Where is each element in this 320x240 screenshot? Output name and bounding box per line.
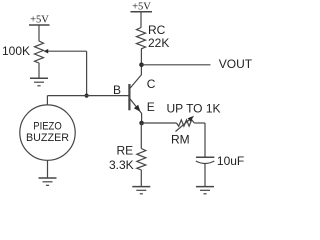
svg-text:100K: 100K (2, 44, 30, 58)
node base junction dot (85, 94, 89, 98)
svg-text:RE: RE (117, 144, 134, 158)
wire wiper to base rail (86, 51, 88, 95)
svg-text:+5V: +5V (30, 15, 49, 26)
wire RE to ground (140, 170, 142, 187)
resistor RC body (137, 28, 146, 49)
pot wiper arrow (44, 49, 87, 54)
ground under buzzer (39, 178, 57, 185)
wire RM to cap corner (194, 122, 205, 124)
svg-text:VOUT: VOUT (219, 57, 253, 71)
svg-text:RM: RM (171, 132, 190, 146)
svg-text:C: C (147, 77, 156, 91)
wire emitter rail to RM (142, 122, 177, 124)
transistor Q1 (129, 74, 141, 113)
wire RC to collector, through VOUT node (140, 49, 142, 75)
wire P1 to R1 (38, 25, 40, 41)
svg-text:22K: 22K (148, 36, 169, 50)
node emitter junction dot (139, 121, 144, 126)
wire P2 to RC (140, 12, 142, 28)
wire down to capacitor (204, 123, 206, 157)
node VOUT junction dot (139, 63, 144, 68)
svg-text:E: E (147, 100, 155, 114)
svg-text:UP TO 1K: UP TO 1K (167, 102, 221, 116)
wire R1 to ground (38, 63, 40, 78)
wire emitter to node (141, 113, 143, 123)
ground under cap (196, 187, 214, 194)
ground under R1 (30, 78, 48, 86)
wire down to buzzer (46, 96, 48, 105)
capacitor C1 10uF (196, 157, 215, 163)
svg-text:BUZZER: BUZZER (26, 132, 69, 144)
wire cap to ground (204, 164, 206, 187)
power +5V rail P2 (131, 2, 153, 13)
resistor RM body (177, 120, 195, 126)
wire node to RE (140, 123, 142, 149)
resistor R1 100K potentiometer body (35, 41, 44, 63)
wire base rail (47, 95, 128, 97)
ground under RE (132, 187, 150, 194)
resistor RE body (137, 149, 146, 171)
svg-text:10uF: 10uF (217, 154, 244, 168)
piezo buzzer BZ1 (20, 105, 75, 160)
svg-text:B: B (113, 83, 121, 97)
wire buzzer to ground (47, 160, 49, 178)
svg-text:3.3K: 3.3K (109, 158, 134, 172)
svg-text:PIEZO: PIEZO (33, 121, 62, 133)
power +5V rail P1 (29, 15, 50, 26)
svg-text:RC: RC (148, 23, 166, 37)
RM wiper diagonal arrow (176, 116, 195, 132)
wire VOUT rail (142, 64, 211, 66)
svg-text:+5V: +5V (132, 2, 151, 13)
